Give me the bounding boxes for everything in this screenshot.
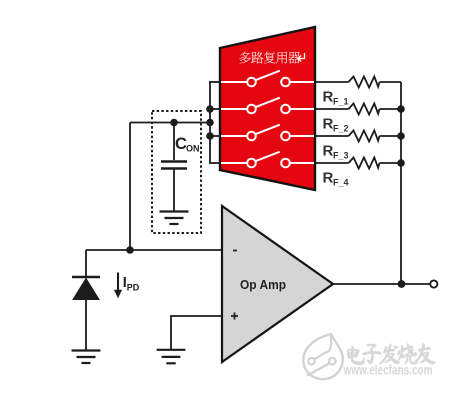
svg-text:F_3: F_3 (333, 151, 349, 161)
node: capacitor top junction dot (170, 119, 178, 127)
resistor RF_3 (316, 131, 401, 142)
dashed box around C_ON (152, 111, 201, 233)
wire: op-amp output (333, 283, 430, 285)
mux input bus wire (209, 82, 211, 163)
watermark text 电子发烧友 (347, 343, 436, 364)
switch SW2 inside mux (221, 98, 314, 114)
non-inverting input plus sign (231, 313, 238, 320)
svg-text:R: R (323, 143, 334, 160)
wire: bus stub to mux pin row y=82 (209, 81, 221, 83)
multiplexer U1 body (220, 27, 315, 190)
switch SW3 inside mux (221, 125, 314, 141)
inverting input minus sign (233, 250, 237, 252)
capacitor C_ON (161, 123, 187, 212)
svg-text:PD: PD (127, 283, 140, 293)
svg-text:ON: ON (186, 144, 200, 154)
pilcrow return arrow after label (298, 53, 305, 62)
wire: bus stub to mux pin row y=163 (209, 162, 221, 164)
photodiode D1 (72, 250, 100, 350)
node dots on mux input bus (206, 105, 214, 113)
svg-text:F_4: F_4 (333, 178, 349, 188)
label 多路复用器 (239, 52, 300, 64)
output terminal (open circle) (430, 280, 437, 287)
switch SW1 inside mux (221, 71, 314, 87)
wire: bus stub to mux pin row y=136 (209, 135, 221, 137)
feedback bus wire (right) (400, 82, 402, 284)
op-amp U2 body (222, 206, 333, 362)
node dots on feedback bus (397, 105, 405, 113)
ground under photodiode (72, 351, 101, 364)
svg-text:F_2: F_2 (333, 124, 349, 134)
switch SW4 inside mux (221, 152, 314, 168)
wire: vertical from summing node up to C_ON node (129, 123, 131, 251)
wire: non-inverting input to ground (171, 316, 222, 350)
svg-text:Op Amp: Op Amp (240, 277, 286, 292)
resistor RF_2 (316, 104, 401, 115)
resistor RF_4 (316, 158, 401, 169)
svg-text:R: R (323, 89, 334, 106)
svg-text:R: R (323, 116, 334, 133)
node: summing junction dot (126, 246, 134, 254)
wire: C_ON node to mux input bus (130, 122, 210, 124)
svg-text:F_1: F_1 (333, 97, 349, 107)
svg-text:www.elecfans.com: www.elecfans.com (343, 363, 433, 378)
ground inside dashed box (160, 212, 189, 225)
svg-text:R: R (323, 170, 334, 187)
current arrow I_PD (114, 273, 122, 299)
wire: bus stub to mux pin row y=109 (209, 108, 221, 110)
resistor RF_1 (316, 77, 401, 88)
node: output junction dot (398, 280, 406, 288)
ground at non-inverting input (157, 350, 186, 364)
watermark logo (elecfans) (303, 334, 342, 379)
wire: photodiode top to op-amp inverting input (86, 249, 222, 251)
